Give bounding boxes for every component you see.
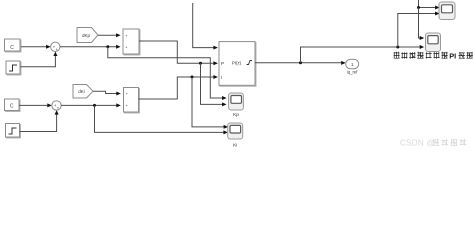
sum junction circle sum2 xyxy=(52,101,61,110)
wire C2 to sum2 xyxy=(19,104,48,106)
From tag dKp xyxy=(77,28,98,43)
node J1 xyxy=(106,45,109,48)
wire sum2 to add2 with junction J3 xyxy=(61,104,116,106)
wire J7 down to scope2 input1 xyxy=(419,8,421,39)
scope Kp xyxy=(229,93,244,110)
svg-text:Ki: Ki xyxy=(233,143,237,149)
svg-text:C: C xyxy=(10,103,14,109)
node J4 xyxy=(191,76,194,79)
scope Scope2 (error input and fuzzy PI output) xyxy=(426,33,441,52)
wire from top to scope1 input1 with junction J7 xyxy=(419,0,436,8)
svg-text:CSDN @: CSDN @ xyxy=(400,139,435,148)
wire dKi to add2 (with jog) xyxy=(93,91,117,93)
step block Step2 xyxy=(7,125,21,139)
wire J2 to Kp scope input2 xyxy=(201,63,223,104)
svg-text:I: I xyxy=(221,75,222,80)
svg-text:P: P xyxy=(221,61,224,66)
sum junction circle sum1 xyxy=(51,42,60,51)
node J7 xyxy=(417,6,420,9)
svg-text:PI(z): PI(z) xyxy=(232,61,242,66)
wire J5 up to scope2 input2 with junction J6 xyxy=(301,47,421,63)
wire J3 to Ki scope input2 xyxy=(95,105,224,132)
wire J6 up to scope1 input2 xyxy=(398,14,436,48)
outport oval iq_ref xyxy=(346,59,359,68)
watermark CSDN xyxy=(400,139,467,148)
constant C1 xyxy=(6,40,22,52)
svg-text:PI: PI xyxy=(449,52,456,61)
Add block add1 xyxy=(124,30,140,55)
svg-text:Kp: Kp xyxy=(233,112,239,118)
svg-text:C: C xyxy=(10,45,14,51)
wire add2 to PI I-port with junction J4 xyxy=(139,77,214,99)
wire PI output to outport with junction J5 xyxy=(255,62,342,64)
node J6 xyxy=(396,46,399,49)
wire Step2 to sum2 xyxy=(20,114,57,131)
label of Scope2 (Chinese) xyxy=(394,52,473,61)
node J5 xyxy=(299,61,302,64)
wire error input vertical xyxy=(193,3,214,48)
svg-text:iq_ref: iq_ref xyxy=(347,70,358,75)
step block Step1 xyxy=(7,62,21,75)
svg-text:dKi: dKi xyxy=(78,89,85,94)
wire J1 to Kp scope input1 xyxy=(108,47,223,98)
wire Step1 to sum1 xyxy=(21,56,56,67)
svg-text:dKp: dKp xyxy=(82,33,91,38)
Add block add2 xyxy=(125,89,140,114)
wire C1 to sum1 xyxy=(21,46,47,48)
wire dKp to add1 xyxy=(98,34,117,36)
scope Scope1 top-right xyxy=(439,2,455,20)
node J3 xyxy=(93,104,96,107)
wire add1 to PI P-port with junction J2 xyxy=(139,41,214,63)
wire J4 to Ki scope input1 xyxy=(192,77,224,127)
PID controller block PI(z) xyxy=(220,43,256,87)
node J2 xyxy=(199,62,202,65)
constant C2 xyxy=(6,100,21,112)
From tag dKi xyxy=(73,85,93,99)
wire sum1 to add1 with junction J1 xyxy=(60,46,117,48)
scope Ki xyxy=(228,123,243,139)
